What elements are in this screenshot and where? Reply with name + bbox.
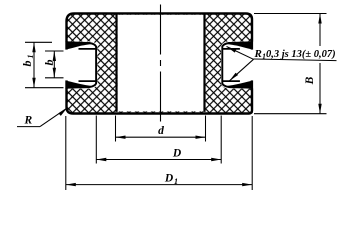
hole wall right [203, 14, 205, 112]
svg-text:1: 1 [174, 177, 178, 186]
central hole d (white) [118, 15, 205, 112]
b1 arrows [32, 42, 35, 52]
svg-text:b: b [20, 61, 34, 67]
D dimension line [96, 159, 221, 161]
b1 extension lines [25, 41, 52, 43]
svg-text:0,3 js 13(± 0,07): 0,3 js 13(± 0,07) [266, 49, 336, 60]
bottom lip claw [66, 81, 91, 89]
hole wall left [115, 14, 117, 112]
top lip claw (thin black section) [66, 42, 91, 50]
R leader arrow [58, 108, 67, 116]
centerline [160, 5, 162, 126]
svg-text:b: b [42, 60, 56, 66]
right groove slot (mirror of left) [221, 41, 255, 89]
R leader diagonal [40, 108, 67, 127]
svg-text:1: 1 [26, 55, 35, 59]
svg-text:R: R [254, 48, 262, 60]
D arrows [96, 158, 106, 161]
d arrows [116, 136, 126, 139]
R1 leader bottom [230, 59, 254, 81]
b extension lines [45, 50, 64, 52]
R1 underline [254, 59, 337, 61]
arrowheads [32, 14, 321, 187]
D extension lines [95, 116, 97, 164]
B arrows [318, 14, 321, 24]
b arrows [53, 51, 56, 61]
groove outline: top wall + dome, inner wall, bottom dome + wall [66, 42, 97, 88]
d dimension line [116, 136, 206, 138]
R leader shelf [17, 126, 40, 128]
svg-text:B: B [304, 76, 316, 85]
left groove slot [63, 41, 97, 89]
svg-text:D: D [172, 148, 182, 160]
B extension lines [254, 13, 327, 15]
d extension lines [115, 116, 117, 142]
svg-text:D: D [164, 173, 174, 185]
body edge segments at lip roots [65, 41, 67, 50]
svg-text:d: d [158, 125, 164, 137]
svg-text:R: R [24, 115, 33, 127]
R1 top arrow [227, 47, 237, 53]
D1 dimension line [66, 184, 252, 186]
grommet body (hatched, rounded corners) [67, 14, 253, 114]
B dimension line [319, 14, 321, 47]
b dimension line [53, 51, 55, 78]
throat lines under the domes [79, 48, 97, 50]
R1 leader top [227, 47, 254, 60]
D1 extension lines [65, 116, 67, 190]
white eraser for groove aperture [63, 41, 97, 88]
R1 bottom arrow [230, 73, 239, 81]
b1 dimension line [33, 42, 35, 87]
D1 arrows [66, 183, 76, 186]
